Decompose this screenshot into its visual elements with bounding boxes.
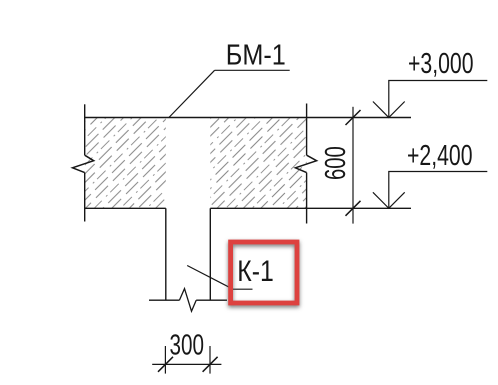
svg-text:+2,400: +2,400 xyxy=(407,140,473,172)
beam bottom line left segment xyxy=(84,207,166,209)
beam right cut edge xyxy=(306,104,308,156)
leader shelf for K-1 xyxy=(233,288,253,290)
elevation mark +3,000 arrow xyxy=(373,102,405,118)
dimension line 600 (vertical) xyxy=(352,107,354,224)
column bottom break zigzag xyxy=(179,289,196,312)
tick at +3,000 level xyxy=(346,110,361,125)
hatch area right of column (beam section) xyxy=(210,118,306,208)
column bottom break line right segment xyxy=(196,299,227,301)
svg-text:300: 300 xyxy=(170,330,205,362)
extension line left (column left edge) xyxy=(164,346,166,374)
column K-1 right edge xyxy=(209,208,211,300)
leader line for BM-1 (diagonal) xyxy=(169,70,215,117)
svg-text:+3,000: +3,000 xyxy=(408,48,474,80)
elevation mark +2,400 arrow xyxy=(373,192,405,208)
break symbol on right edge xyxy=(295,155,316,172)
svg-text:БМ-1: БМ-1 xyxy=(226,40,286,72)
beam bottom line right segment / level +2,400 line xyxy=(210,207,411,209)
break symbol on left edge xyxy=(73,155,94,172)
svg-text:600: 600 xyxy=(320,146,352,180)
svg-text:К-1: К-1 xyxy=(237,255,273,288)
hatch area left of column (beam section) xyxy=(85,118,166,208)
tick at left xyxy=(158,357,173,372)
red highlight box around K-1 xyxy=(231,242,297,303)
beam top line / level +3,000 line xyxy=(84,117,411,119)
tick at +2,400 level xyxy=(346,201,361,216)
extension line right (column right edge) xyxy=(209,346,211,374)
column K-1 left edge xyxy=(165,208,167,300)
tick at right xyxy=(203,357,218,372)
elevation mark +2,400 shelf xyxy=(389,172,488,209)
elevation mark +3,000 shelf xyxy=(389,81,488,118)
leader line for K-1 (diagonal) xyxy=(187,266,233,290)
leader shelf for BM-1 xyxy=(215,69,290,71)
dimension line 300 (horizontal, bottom) xyxy=(152,363,221,365)
column bottom break line left segment xyxy=(149,299,179,301)
beam right cut edge lower part xyxy=(306,173,308,224)
beam left cut edge lower part xyxy=(84,173,86,222)
beam left cut edge xyxy=(84,104,86,155)
